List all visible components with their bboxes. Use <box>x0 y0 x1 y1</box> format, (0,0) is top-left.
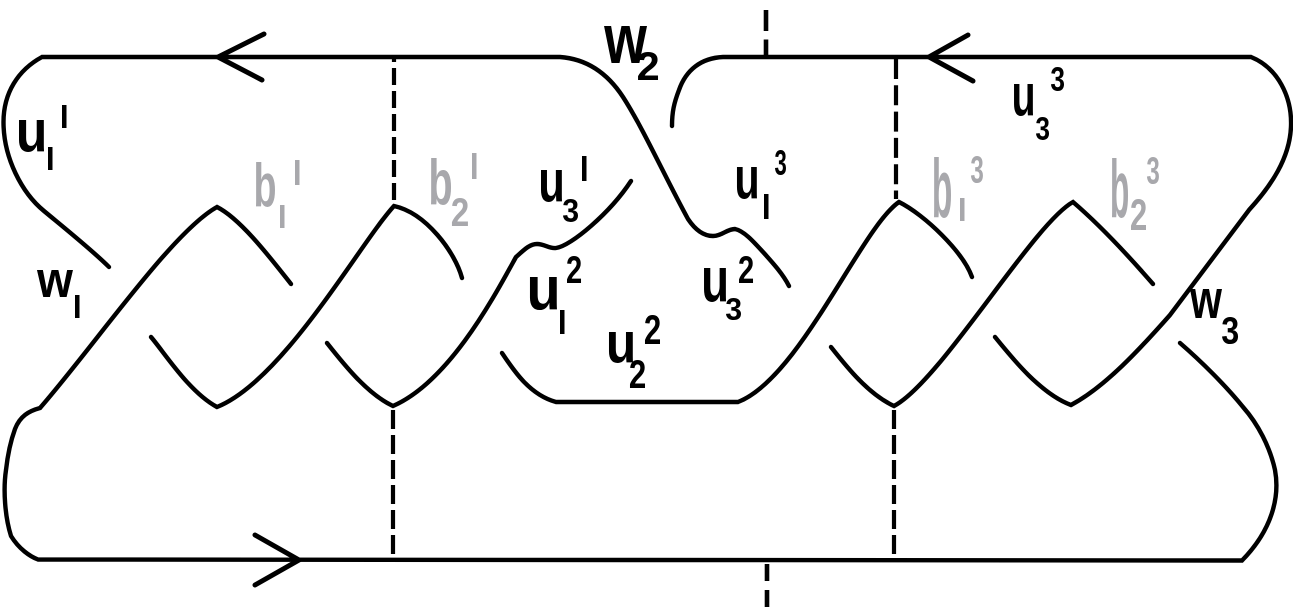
label u1^2 <box>530 256 581 334</box>
label u3^1 <box>541 156 587 222</box>
label w3 <box>1190 289 1238 344</box>
wire strand S1: u1^1 arc, top-left line, w2 descent <box>4 57 790 286</box>
label b1^3 (grey) <box>934 156 983 221</box>
wire strand S6: w2 continuation, over b1^3 peak <box>831 202 1153 406</box>
wire strand S4: u3^1 wiggle arc <box>327 181 631 406</box>
label b2^1 (grey) <box>431 153 476 226</box>
label u3^3 <box>1014 67 1064 140</box>
wire strand S5: top-right line with right bulge, w3 diagonal <box>672 57 1291 405</box>
label b2^3 (grey) <box>1112 157 1159 230</box>
wire strand S3: bottom line, left loop, over b1^1 peak <box>5 207 1277 561</box>
label b1^1 (grey) <box>256 160 300 228</box>
label u1^1 <box>19 105 66 170</box>
wire strand S7: u2^2 flat arc, over peak into b1^3 <box>502 202 972 402</box>
label u3^2 <box>704 256 753 320</box>
dashed sphere line 1 lower <box>391 410 395 558</box>
wire strand S2: u1^1 continuation under b1^1, over b2^1 peak <box>151 206 462 407</box>
arrow on top-left line (pointing left) <box>218 34 264 80</box>
arrow on bottom line (pointing right) <box>255 535 299 585</box>
dashed sphere line 3 upper <box>894 59 898 199</box>
label w1 <box>37 270 80 318</box>
label w2 <box>604 26 658 80</box>
label u2^2 <box>609 315 660 388</box>
dashed sphere line 2 lower <box>765 564 770 608</box>
label u1^3 <box>737 150 786 219</box>
dashed sphere line 3 lower <box>892 410 896 556</box>
dashed sphere line 2 upper <box>764 10 769 56</box>
dashed sphere line 1 upper <box>392 59 396 206</box>
arrow on top-right line (pointing left) <box>929 35 973 81</box>
